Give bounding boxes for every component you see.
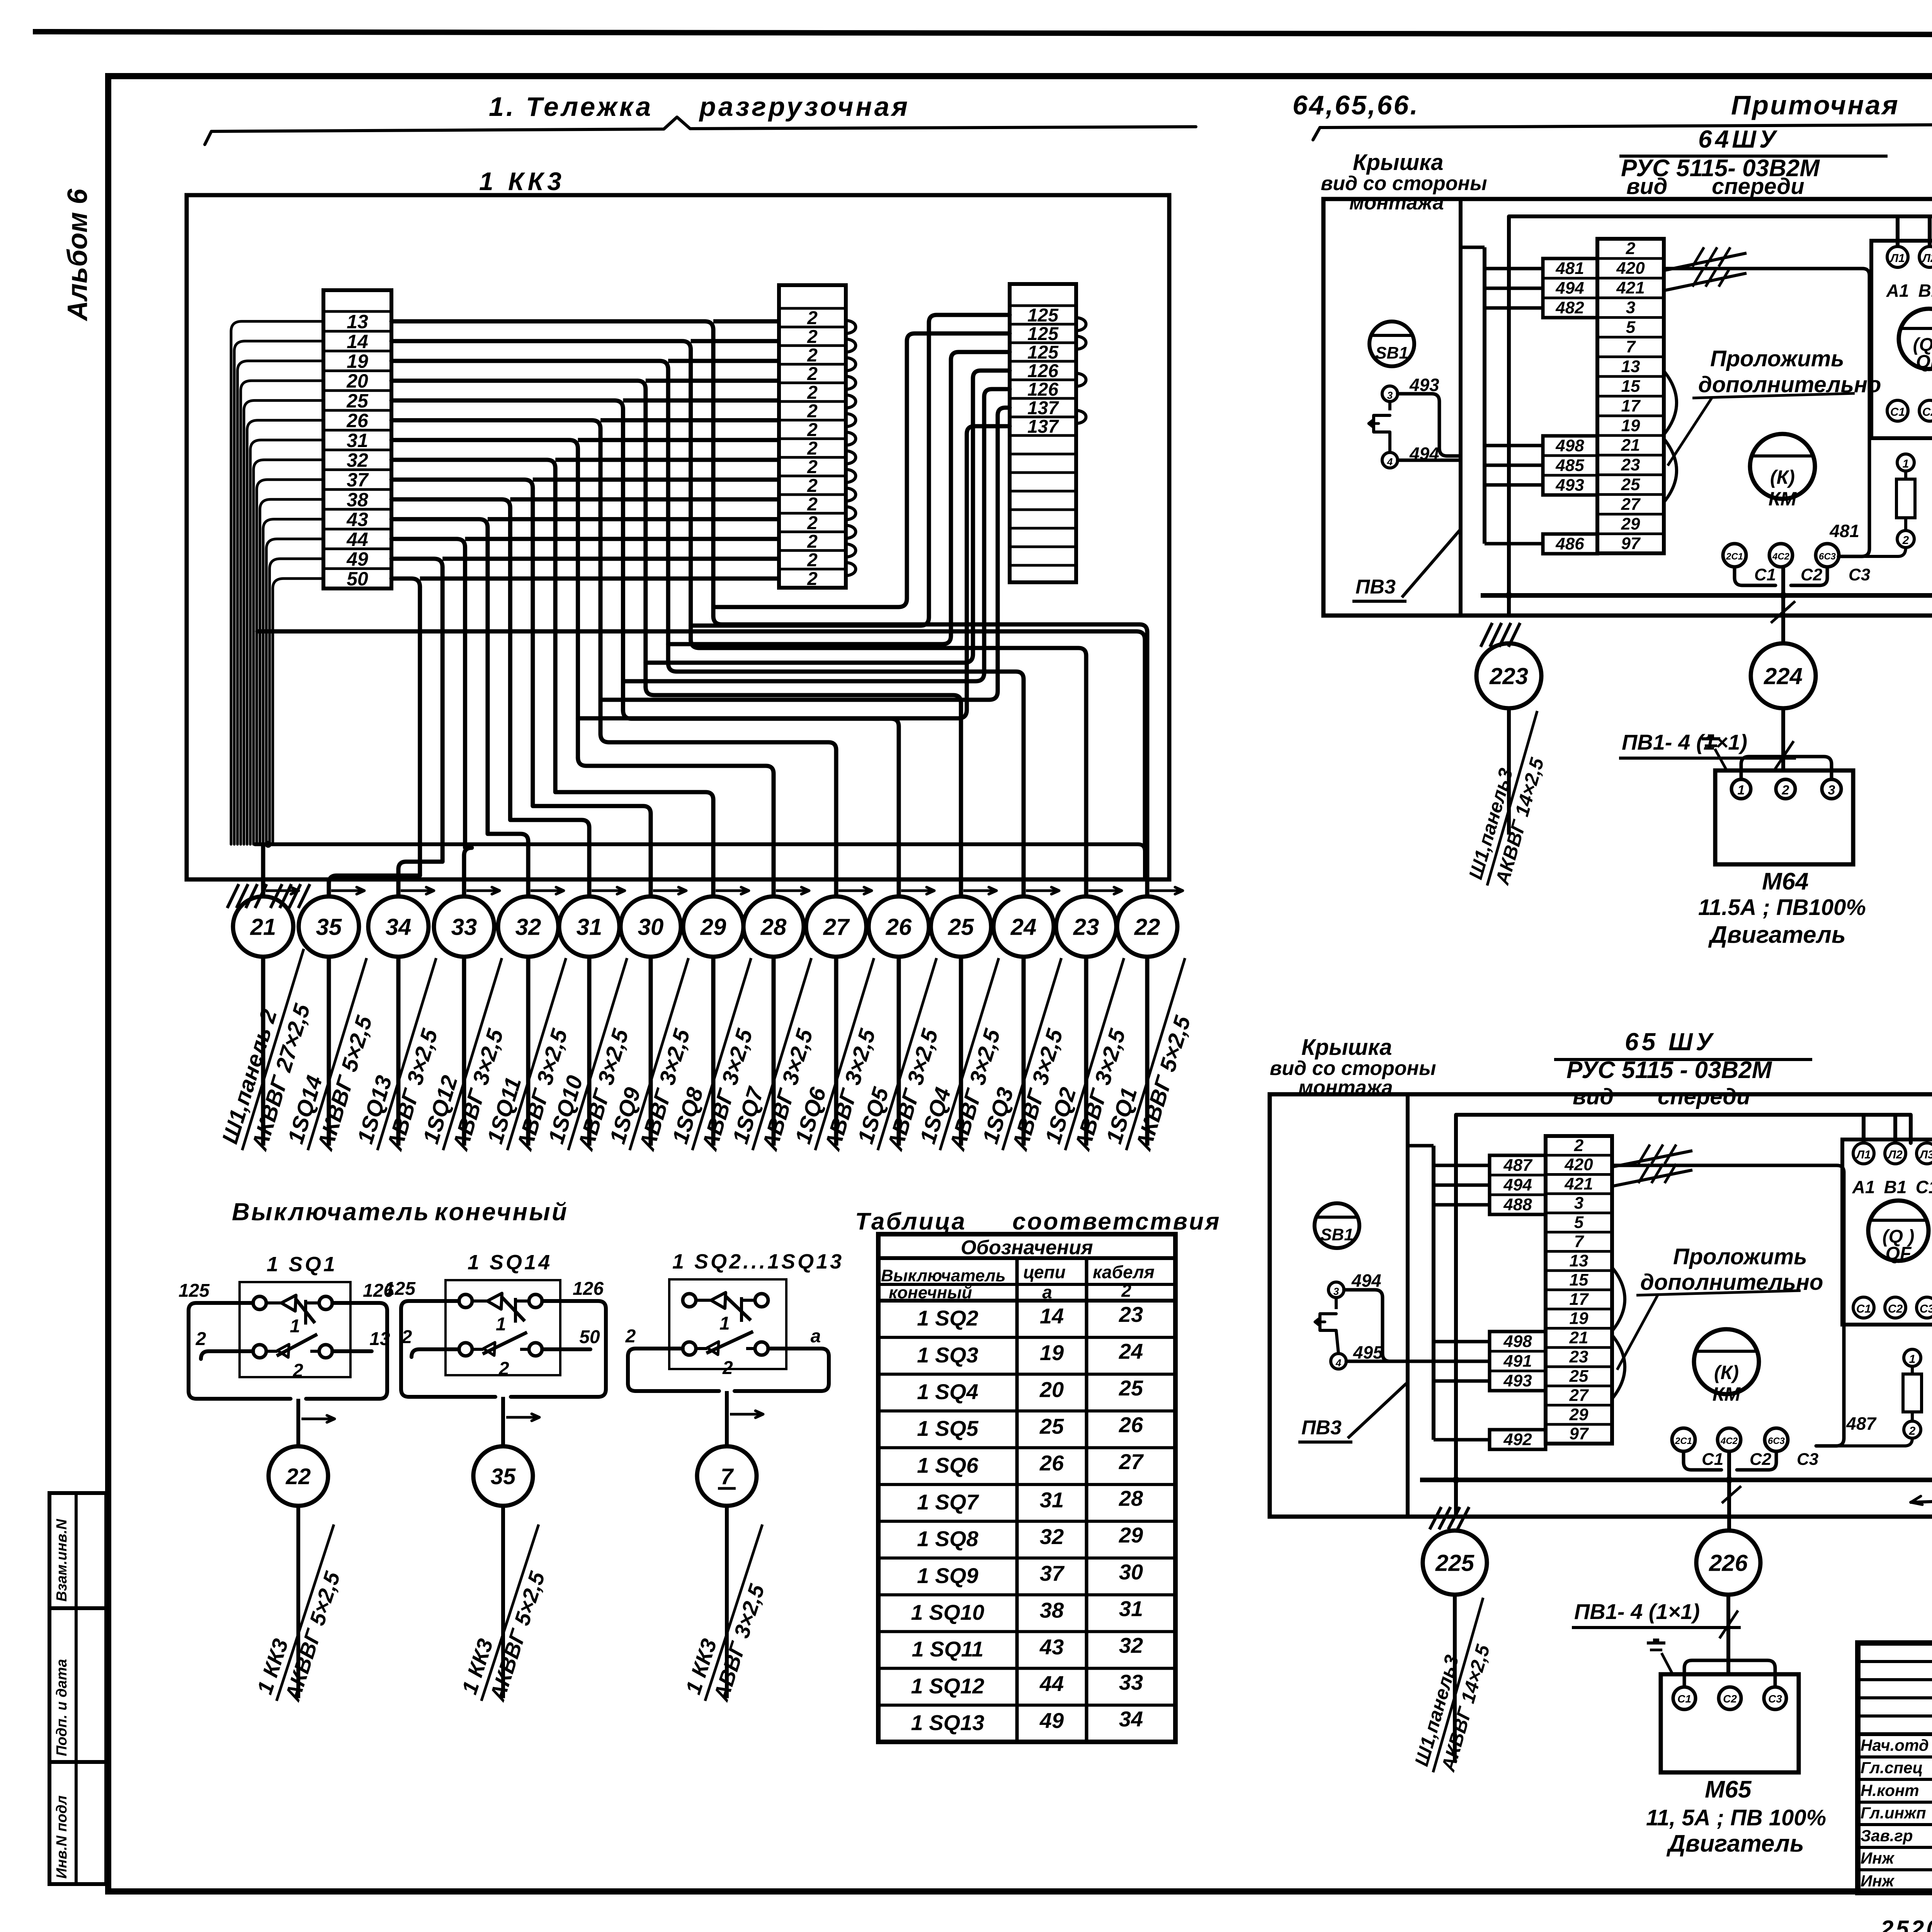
svg-text:2: 2 (807, 401, 818, 422)
svg-text:1 SQ2...1SQ13: 1 SQ2...1SQ13 (672, 1250, 844, 1273)
svg-text:14: 14 (1040, 1304, 1064, 1328)
svg-text:486: 486 (1555, 534, 1584, 553)
svg-text:2: 2 (722, 1358, 733, 1378)
svg-text:1 SQ9: 1 SQ9 (917, 1563, 978, 1588)
svg-text:26: 26 (886, 914, 912, 940)
svg-text:Приточная: Приточная (1731, 90, 1900, 120)
svg-text:Л2: Л2 (1922, 252, 1932, 265)
svg-text:2: 2 (1782, 783, 1789, 798)
svg-text:кабеля: кабеля (1093, 1262, 1155, 1282)
svg-text:Таблица: Таблица (855, 1208, 966, 1235)
svg-text:7: 7 (1626, 337, 1636, 356)
svg-text:23: 23 (1621, 456, 1640, 474)
svg-text:493: 493 (1555, 476, 1584, 495)
svg-text:481: 481 (1829, 521, 1859, 541)
svg-text:2: 2 (807, 476, 818, 496)
svg-text:С2: С2 (1888, 1303, 1903, 1315)
svg-text:6С3: 6С3 (1819, 551, 1836, 562)
svg-text:226: 226 (1709, 1550, 1748, 1576)
svg-text:50: 50 (347, 568, 368, 590)
svg-text:1 SQ12: 1 SQ12 (911, 1673, 985, 1698)
svg-text:Зав.гр: Зав.гр (1861, 1827, 1913, 1845)
svg-text:21: 21 (250, 914, 276, 940)
svg-text:4: 4 (1387, 456, 1393, 468)
svg-text:Двигатель: Двигатель (1666, 1830, 1804, 1857)
svg-text:4С2: 4С2 (1720, 1436, 1738, 1446)
svg-text:М65: М65 (1705, 1776, 1752, 1803)
svg-text:2: 2 (807, 569, 818, 589)
svg-text:35: 35 (491, 1464, 516, 1489)
svg-text:1: 1 (290, 1316, 300, 1337)
svg-text:224: 224 (1764, 663, 1803, 689)
svg-text:1: 1 (1738, 783, 1745, 798)
svg-text:QF: QF (1916, 352, 1932, 372)
svg-text:25: 25 (1119, 1376, 1143, 1400)
svg-text:1 SQ1: 1 SQ1 (267, 1253, 337, 1276)
svg-text:27: 27 (1569, 1386, 1589, 1405)
svg-text:ПВ1- 4 (1×1): ПВ1- 4 (1×1) (1574, 1599, 1700, 1624)
svg-text:30: 30 (638, 914, 664, 940)
svg-text:1: 1 (496, 1314, 506, 1335)
svg-text:21: 21 (1569, 1328, 1588, 1347)
svg-text:19: 19 (1570, 1309, 1588, 1328)
svg-text:Инж: Инж (1861, 1849, 1895, 1867)
svg-text:цепи: цепи (1023, 1262, 1066, 1282)
svg-text:спереди: спереди (1658, 1084, 1750, 1109)
svg-text:491: 491 (1503, 1352, 1532, 1371)
svg-text:482: 482 (1555, 298, 1584, 317)
svg-text:2: 2 (293, 1361, 303, 1381)
svg-text:31: 31 (1119, 1597, 1143, 1621)
svg-text:125: 125 (1027, 342, 1059, 363)
svg-text:С2: С2 (1801, 565, 1823, 584)
svg-text:19: 19 (1621, 416, 1640, 435)
svg-text:64ШУ: 64ШУ (1698, 125, 1779, 153)
svg-text:А1: А1 (1886, 281, 1909, 301)
svg-text:Крышка: Крышка (1301, 1035, 1392, 1060)
svg-text:конечный: конечный (435, 1198, 568, 1226)
svg-text:126: 126 (1027, 361, 1058, 381)
svg-text:29: 29 (700, 914, 726, 940)
svg-text:С2: С2 (1922, 406, 1932, 418)
svg-text:2: 2 (1909, 1425, 1916, 1437)
svg-text:31: 31 (1040, 1488, 1064, 1512)
svg-text:32: 32 (1040, 1524, 1064, 1549)
svg-text:Л2: Л2 (1887, 1148, 1903, 1161)
svg-text:11, 5А ; ПВ 100%: 11, 5А ; ПВ 100% (1646, 1805, 1826, 1830)
svg-text:SB1: SB1 (1320, 1225, 1354, 1244)
svg-text:Инж: Инж (1861, 1872, 1895, 1890)
svg-text:487: 487 (1846, 1413, 1877, 1434)
svg-text:33: 33 (1119, 1670, 1143, 1694)
svg-text:19: 19 (1040, 1340, 1064, 1365)
svg-text:43: 43 (1039, 1635, 1064, 1659)
svg-text:30: 30 (1119, 1560, 1143, 1584)
svg-text:2С1: 2С1 (1726, 551, 1743, 562)
svg-text:М64: М64 (1762, 868, 1809, 895)
svg-text:25: 25 (346, 390, 369, 412)
svg-text:24: 24 (1119, 1339, 1143, 1363)
svg-text:29: 29 (1569, 1405, 1588, 1424)
svg-text:125: 125 (1027, 305, 1059, 326)
svg-text:27: 27 (1621, 495, 1641, 514)
svg-text:Обозначения: Обозначения (961, 1236, 1093, 1259)
svg-text:38: 38 (1040, 1598, 1064, 1622)
svg-text:2: 2 (807, 420, 818, 440)
svg-text:49: 49 (1039, 1708, 1064, 1733)
svg-text:1 SQ2: 1 SQ2 (917, 1306, 978, 1330)
svg-text:1 SQ13: 1 SQ13 (911, 1711, 985, 1735)
svg-text:493: 493 (1503, 1371, 1532, 1390)
svg-text:Подп. и дата: Подп. и дата (54, 1659, 70, 1756)
svg-text:137: 137 (1027, 417, 1059, 437)
svg-text:Инв.N подл: Инв.N подл (54, 1796, 70, 1879)
svg-text:С3: С3 (1797, 1450, 1818, 1469)
svg-text:Нач.отд: Нач.отд (1861, 1736, 1929, 1754)
svg-text:а: а (811, 1326, 821, 1347)
svg-text:1 SQ6: 1 SQ6 (917, 1453, 979, 1477)
svg-text:64,65,66.: 64,65,66. (1293, 90, 1419, 120)
svg-text:20: 20 (1039, 1377, 1064, 1401)
svg-text:Гл.спец: Гл.спец (1861, 1759, 1923, 1777)
svg-text:4С2: 4С2 (1772, 551, 1790, 562)
svg-text:37: 37 (1040, 1561, 1065, 1585)
svg-text:1 SQ8: 1 SQ8 (917, 1527, 979, 1551)
svg-text:1: 1 (1909, 1353, 1916, 1366)
svg-text:223: 223 (1489, 663, 1528, 689)
svg-text:20: 20 (346, 370, 368, 392)
svg-text:2: 2 (807, 513, 818, 533)
svg-text:1 SQ7: 1 SQ7 (917, 1490, 980, 1514)
svg-text:С2: С2 (1750, 1450, 1772, 1469)
svg-text:27: 27 (823, 914, 850, 940)
svg-text:488: 488 (1503, 1195, 1532, 1214)
svg-text:22: 22 (1134, 914, 1160, 940)
svg-text:Выключатель: Выключатель (881, 1266, 1006, 1285)
svg-text:5: 5 (1574, 1213, 1584, 1232)
svg-text:13: 13 (1570, 1251, 1588, 1270)
svg-text:65 ШУ: 65 ШУ (1625, 1028, 1716, 1056)
svg-text:97: 97 (1570, 1424, 1589, 1443)
svg-text:2: 2 (807, 439, 818, 459)
svg-text:Выключатель: Выключатель (232, 1198, 430, 1226)
svg-text:КМ: КМ (1713, 1383, 1741, 1405)
svg-text:2: 2 (196, 1329, 206, 1349)
svg-text:2: 2 (807, 327, 818, 347)
svg-text:7: 7 (721, 1464, 734, 1489)
svg-text:125: 125 (1027, 324, 1059, 344)
svg-text:2: 2 (625, 1326, 636, 1347)
svg-text:25: 25 (1621, 475, 1640, 494)
svg-text:1 SQ5: 1 SQ5 (917, 1416, 979, 1440)
svg-text:РУС 5115 - 03В2М: РУС 5115 - 03В2М (1566, 1057, 1772, 1083)
svg-text:Л3: Л3 (1919, 1148, 1932, 1161)
svg-text:SB1: SB1 (1375, 344, 1408, 362)
svg-text:2: 2 (1574, 1136, 1584, 1155)
svg-text:В1: В1 (1884, 1177, 1907, 1197)
svg-text:13: 13 (1621, 357, 1640, 376)
svg-text:31: 31 (347, 430, 368, 451)
svg-text:С1: С1 (1890, 406, 1905, 418)
svg-text:1. Тележка: 1. Тележка (489, 92, 653, 122)
svg-text:23: 23 (1073, 914, 1099, 940)
svg-text:13: 13 (347, 311, 368, 333)
svg-text:С1: С1 (1677, 1693, 1691, 1705)
svg-text:Н.конт: Н.конт (1861, 1781, 1919, 1799)
svg-text:3: 3 (1828, 783, 1835, 798)
svg-text:2: 2 (807, 494, 818, 515)
svg-text:С3: С3 (1849, 565, 1870, 584)
svg-text:225: 225 (1435, 1550, 1475, 1576)
svg-text:32: 32 (1119, 1633, 1143, 1658)
svg-text:23: 23 (1569, 1347, 1588, 1366)
svg-text:15: 15 (1621, 377, 1640, 396)
svg-text:1 SQ11: 1 SQ11 (912, 1637, 984, 1661)
svg-text:монтажа: монтажа (1349, 192, 1444, 214)
svg-text:1 SQ3: 1 SQ3 (917, 1343, 978, 1367)
svg-text:34: 34 (386, 914, 412, 940)
svg-text:2С1: 2С1 (1675, 1436, 1692, 1446)
svg-text:49: 49 (346, 548, 368, 570)
svg-text:487: 487 (1503, 1156, 1533, 1175)
svg-text:С1: С1 (1702, 1450, 1723, 1469)
svg-text:493: 493 (1409, 375, 1439, 395)
svg-text:494: 494 (1351, 1270, 1381, 1291)
svg-text:С1: С1 (1754, 565, 1776, 584)
svg-text:2: 2 (807, 345, 818, 366)
svg-text:31: 31 (577, 914, 602, 940)
svg-text:2: 2 (807, 308, 818, 328)
svg-text:1 SQ14: 1 SQ14 (468, 1251, 552, 1274)
svg-text:спереди: спереди (1712, 174, 1804, 199)
svg-text:КМ: КМ (1769, 488, 1797, 510)
svg-text:Гл.инжп: Гл.инжп (1861, 1804, 1926, 1822)
svg-text:21: 21 (1621, 436, 1640, 455)
svg-text:137: 137 (1027, 398, 1059, 418)
svg-text:29: 29 (1119, 1523, 1143, 1547)
svg-text:32: 32 (515, 914, 541, 940)
svg-text:29: 29 (1621, 514, 1640, 533)
svg-text:492: 492 (1503, 1430, 1532, 1449)
svg-text:(К): (К) (1714, 1362, 1739, 1383)
svg-text:28: 28 (1119, 1486, 1143, 1510)
svg-text:22: 22 (286, 1464, 311, 1489)
svg-text:3: 3 (1574, 1194, 1583, 1213)
svg-text:17: 17 (1621, 396, 1641, 415)
svg-text:А1: А1 (1852, 1177, 1875, 1197)
svg-text:2: 2 (807, 364, 818, 384)
svg-text:126: 126 (1027, 379, 1058, 400)
svg-text:конечный: конечный (889, 1283, 972, 1302)
svg-text:1 КК3: 1 КК3 (479, 167, 565, 196)
svg-text:В1: В1 (1918, 281, 1932, 301)
svg-text:Двигатель: Двигатель (1708, 922, 1846, 948)
svg-text:421: 421 (1616, 279, 1645, 298)
svg-text:3: 3 (1387, 389, 1393, 401)
svg-text:14: 14 (347, 331, 368, 352)
svg-text:4: 4 (1335, 1357, 1342, 1369)
svg-text:вид: вид (1573, 1084, 1614, 1109)
svg-text:32: 32 (347, 449, 368, 471)
svg-text:Проложить: Проложить (1673, 1244, 1807, 1269)
svg-text:17: 17 (1570, 1290, 1589, 1309)
svg-text:2: 2 (807, 532, 818, 552)
svg-text:420: 420 (1616, 259, 1645, 278)
svg-text:26: 26 (1119, 1413, 1143, 1437)
svg-text:1: 1 (1903, 457, 1909, 470)
svg-text:50: 50 (579, 1327, 600, 1347)
svg-text:5: 5 (1626, 318, 1636, 337)
svg-text:25: 25 (1039, 1414, 1064, 1439)
svg-text:495: 495 (1353, 1342, 1383, 1362)
svg-text:ПВ3: ПВ3 (1301, 1417, 1342, 1439)
svg-text:Крышка: Крышка (1353, 150, 1444, 175)
svg-text:С3: С3 (1768, 1693, 1782, 1705)
svg-text:1 SQ4: 1 SQ4 (917, 1379, 978, 1404)
svg-text:494: 494 (1555, 279, 1584, 298)
svg-text:15: 15 (1570, 1270, 1588, 1289)
svg-text:2: 2 (807, 457, 818, 478)
svg-text:2: 2 (807, 550, 818, 571)
svg-text:С2: С2 (1723, 1693, 1737, 1705)
svg-text:Л1: Л1 (1855, 1148, 1871, 1161)
svg-text:485: 485 (1555, 456, 1584, 475)
svg-text:23: 23 (1119, 1302, 1143, 1327)
svg-text:ПВ1- 4 (1×1): ПВ1- 4 (1×1) (1622, 730, 1747, 754)
svg-text:С3: С3 (1920, 1303, 1932, 1315)
svg-text:6С3: 6С3 (1768, 1436, 1785, 1446)
svg-text:3: 3 (1626, 298, 1635, 317)
svg-text:34: 34 (1119, 1707, 1143, 1731)
svg-text:25: 25 (948, 914, 975, 940)
svg-text:35: 35 (316, 914, 342, 940)
svg-text:2: 2 (498, 1359, 509, 1379)
svg-text:соответствия: соответствия (1012, 1208, 1221, 1235)
svg-text:11.5А ; ПВ100%: 11.5А ; ПВ100% (1698, 895, 1866, 920)
svg-text:1 SQ10: 1 SQ10 (911, 1600, 985, 1624)
svg-text:498: 498 (1555, 436, 1584, 455)
svg-text:ПВ3: ПВ3 (1355, 576, 1396, 598)
svg-text:125: 125 (179, 1281, 210, 1301)
svg-text:26: 26 (1039, 1451, 1064, 1475)
svg-text:(К): (К) (1770, 466, 1795, 488)
svg-text:разгрузочная: разгрузочная (699, 92, 910, 122)
svg-text:Л1: Л1 (1889, 252, 1905, 265)
svg-text:25: 25 (1569, 1367, 1588, 1386)
svg-text:26: 26 (346, 410, 369, 432)
svg-text:43: 43 (346, 509, 368, 531)
svg-text:38: 38 (347, 489, 368, 510)
svg-text:19: 19 (347, 350, 368, 372)
svg-text:97: 97 (1621, 534, 1641, 553)
svg-text:421: 421 (1564, 1174, 1593, 1193)
svg-text:28: 28 (760, 914, 787, 940)
svg-text:QF: QF (1886, 1243, 1912, 1264)
svg-text:2: 2 (1902, 534, 1909, 547)
svg-text:44: 44 (346, 529, 368, 550)
svg-text:1: 1 (719, 1313, 730, 1334)
svg-text:27: 27 (1119, 1449, 1144, 1474)
svg-text:2: 2 (807, 383, 818, 403)
svg-text:498: 498 (1503, 1332, 1532, 1351)
svg-text:Альбом 6: Альбом 6 (62, 189, 93, 321)
svg-text:Взам.инв.N: Взам.инв.N (54, 1519, 70, 1602)
svg-text:494: 494 (1503, 1175, 1532, 1194)
svg-text:3: 3 (1333, 1286, 1339, 1297)
svg-text:С1: С1 (1916, 1177, 1932, 1197)
svg-text:25208 -06: 25208 -06 (1880, 1916, 1932, 1932)
svg-text:2: 2 (1626, 239, 1636, 258)
svg-text:481: 481 (1555, 259, 1584, 278)
svg-text:33: 33 (451, 914, 477, 940)
svg-text:125: 125 (384, 1279, 416, 1299)
svg-text:7: 7 (1574, 1232, 1585, 1251)
svg-text:вид: вид (1626, 174, 1667, 199)
svg-text:37: 37 (347, 469, 369, 491)
svg-text:44: 44 (1039, 1672, 1064, 1696)
svg-text:420: 420 (1564, 1155, 1593, 1174)
svg-text:Проложить: Проложить (1710, 346, 1844, 371)
svg-text:С1: С1 (1856, 1303, 1871, 1315)
svg-text:126: 126 (573, 1279, 604, 1299)
svg-text:24: 24 (1010, 914, 1037, 940)
